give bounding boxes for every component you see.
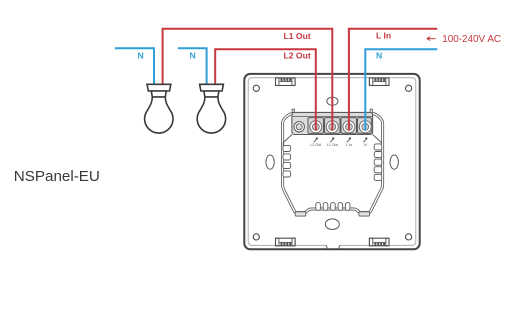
label L1 Out — [284, 31, 311, 41]
unused screw hole on block — [294, 122, 304, 132]
label NSPanel-EU — [14, 168, 100, 185]
label N lamp2 — [190, 50, 196, 60]
terminal cell 4 (N) — [358, 118, 372, 134]
bracket bottom comb slots — [316, 202, 350, 210]
bottom notch on panel edge — [326, 245, 340, 249]
svg-text:N: N — [364, 143, 367, 147]
svg-text:N: N — [376, 51, 382, 61]
terminal cell 1 (L2 Out) — [308, 118, 324, 134]
bracket spring tabs left column — [283, 145, 291, 177]
terminal screw 4 — [359, 121, 371, 133]
oval cutout top-center — [327, 97, 338, 105]
screw hole top-left — [253, 85, 259, 91]
mounting tab top-left — [276, 78, 296, 86]
wire N from terminal 4 to mains (blue) — [365, 49, 437, 130]
svg-text:100-240V AC: 100-240V AC — [442, 34, 501, 45]
svg-text:N: N — [138, 50, 144, 60]
wire L1 Out from lamp L1 to terminal 2 (red) — [163, 29, 333, 131]
svg-text:L In: L In — [346, 143, 352, 147]
mounting bracket outline left/bottom/right — [283, 113, 383, 212]
mounting tab bottom-right — [369, 238, 389, 246]
lamp L2 (light bulb) — [197, 84, 225, 133]
wire N to lamp L1 (blue) — [115, 48, 154, 84]
bracket foot left — [295, 212, 306, 216]
oval cutout bottom-center — [325, 219, 339, 230]
terminal screw 1 — [310, 121, 322, 133]
bracket foot right — [359, 212, 370, 216]
terminal screw 2 — [326, 121, 338, 133]
arrow to mains — [427, 37, 436, 41]
bracket inner corner line left — [283, 135, 292, 147]
lamp L1 (light bulb) — [145, 84, 173, 133]
bracket inner corner line right — [373, 135, 382, 147]
wire L2 Out from lamp L2 to terminal 1 (red) — [215, 49, 316, 130]
mounting tab top-right — [369, 78, 389, 86]
mounting tab bottom-left — [276, 238, 296, 246]
screw hole bottom-right — [406, 234, 412, 240]
terminal block body — [292, 109, 373, 134]
label N lamp1 — [138, 50, 144, 60]
svg-text:L1 Out: L1 Out — [327, 143, 338, 147]
svg-text:L1 Out: L1 Out — [284, 31, 311, 41]
wire L In from terminal 3 to mains (red) — [349, 29, 437, 131]
svg-text:N: N — [190, 50, 196, 60]
terminal pin labels — [310, 143, 367, 147]
svg-text:L2 Out: L2 Out — [310, 143, 321, 147]
terminal screw 3 — [343, 121, 355, 133]
wire N to lamp L2 (blue) — [178, 48, 207, 84]
svg-text:L2 Out: L2 Out — [284, 51, 311, 61]
bracket spring tabs right column — [374, 144, 382, 181]
screw hole top-right — [406, 85, 412, 91]
screw hole bottom-left — [253, 234, 259, 240]
oval cutout right — [390, 155, 398, 169]
label L2 Out — [284, 51, 311, 61]
oval cutout left — [266, 155, 274, 169]
label 100-240V AC — [442, 34, 501, 45]
terminal cell 2 (L1 Out) — [325, 118, 341, 134]
terminal cell 3 (L In) — [341, 118, 357, 134]
svg-text:L In: L In — [376, 31, 391, 41]
label L In — [376, 31, 391, 41]
label N mains — [376, 51, 382, 61]
panel U1 NSPanel-EU back plate — [244, 74, 419, 249]
terminal pin symbols — [314, 138, 367, 142]
svg-text:NSPanel-EU: NSPanel-EU — [14, 168, 100, 185]
